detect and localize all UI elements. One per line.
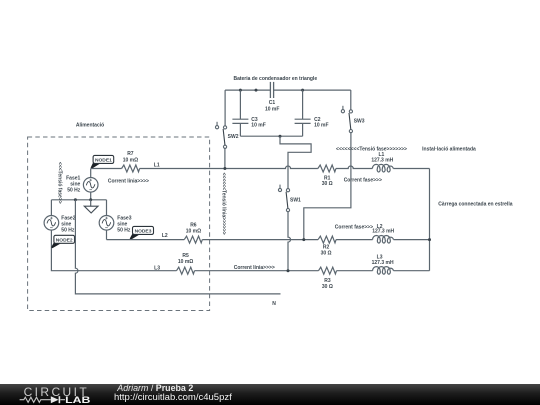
svg-text:Alimentació: Alimentació [76,123,104,129]
switch SW2 [215,122,238,149]
switch SW3 [341,106,364,133]
label R6 [186,223,201,235]
svg-text:L2: L2 [162,233,168,239]
wire Fase1 top to L1 [90,169,92,178]
svg-text:http://circuitlab.com/c4u5pzf: http://circuitlab.com/c4u5pzf [114,392,232,403]
wire cap bank bottom rail [240,135,302,137]
resistor R6 [184,236,202,243]
wire cap bank top rail [225,89,351,91]
svg-text:30 Ω: 30 Ω [321,250,332,256]
label L2 load [372,224,394,235]
label R5 [178,253,193,265]
wire SW1 to L3 line with hop over L2 [288,212,291,271]
svg-text:10 mΩ: 10 mΩ [123,157,138,163]
svg-text:R6: R6 [190,223,197,229]
label Carrega connectada en estrella [438,201,512,207]
inductor L2 load [373,236,394,244]
node flag NODE3 [130,226,154,239]
svg-text:C1: C1 [269,100,276,106]
logo CIRCUIT text [24,385,89,399]
ground symbol [84,200,98,213]
wire cap top rail to SW3 [350,90,352,110]
wire line L2 [107,239,430,241]
label R3 [322,278,333,290]
label Tensio fase arrows [336,146,407,152]
dashed box Alimentacio region [28,137,210,311]
label L2 line [162,233,168,239]
inductor L1 load [372,164,393,172]
capacitor C2 plates [295,119,311,123]
svg-text:10 mΩ: 10 mΩ [178,259,193,265]
svg-text:Instal·lació alimentada: Instal·lació alimentada [422,147,476,153]
logo resistor zigzag and diode [20,396,65,403]
label Corrent linia L3 [234,265,275,271]
resistor R7 [122,165,140,172]
resistor R1 [318,165,336,172]
svg-text:NODE2: NODE2 [56,237,73,243]
junction dot top rail C2 tap [301,89,304,92]
junction dot L2 SW3jog [302,238,305,241]
wire star bus right [429,169,431,271]
svg-text:R7: R7 [127,151,134,157]
svg-text:SW1: SW1 [290,197,301,203]
node flag NODE1 [91,155,114,168]
svg-text:50 Hz: 50 Hz [61,228,75,234]
label C1 [265,100,279,113]
wire jog from cap bottom node [280,136,311,188]
svg-text:127.3 mH: 127.3 mH [372,260,394,266]
label R7 [123,151,138,163]
wire neutral with hop over L3 [75,200,280,294]
resistor R2 [318,236,336,243]
capacitor C3 plates [232,119,248,123]
svg-text:10 mF: 10 mF [314,122,328,128]
label Corrent fase 1 [344,177,382,183]
resistor R5 [177,267,195,274]
label L3 load [372,255,394,266]
footer author line [116,383,193,393]
svg-text:R5: R5 [182,253,189,259]
svg-text:30 Ω: 30 Ω [322,181,333,187]
junction dot star bus L2 [428,238,431,241]
junction dot bus fase1 [89,198,92,201]
label L1 load [371,152,393,163]
label Fase1 [66,176,81,194]
label Corrent fase 2 [335,224,373,230]
svg-text:127.3 mH: 127.3 mH [372,229,394,235]
label Installacio alimentada [422,147,476,153]
svg-text:10 mΩ: 10 mΩ [186,229,201,235]
wire C3 branch [239,90,241,136]
wire cap left down to SW2 [224,90,226,126]
footer url line [114,392,232,403]
svg-text:N: N [272,301,276,307]
svg-text:50 Hz: 50 Hz [117,228,131,234]
label N [272,301,276,307]
voltage source Fase2 [44,216,59,231]
svg-text:<<<<<<<<Tensió fase>>>>>>>: <<<<<<<<Tensió fase>>>>>>> [336,146,407,152]
svg-text:SW3: SW3 [354,118,365,124]
node flag NODE2 [51,235,74,248]
junction dot bottom rail [279,135,282,138]
svg-text:L1: L1 [154,162,160,168]
wire Fase1 bottom to bus [90,192,92,200]
label C2 [314,117,328,128]
wire bus to Fase2 [50,200,52,216]
label Tensio fase vertical [57,162,63,204]
label R2 [321,244,332,256]
logo LAB text [65,394,90,405]
junction dot top rail left [239,89,242,92]
label C3 [251,117,265,128]
svg-text:Bateria de condensador en tria: Bateria de condensador en triangle [233,76,317,82]
wire bus to Fase3 [106,200,108,216]
label L3 line [154,266,160,272]
svg-text:50 Hz: 50 Hz [67,188,81,194]
label Alimentacio [76,123,104,129]
wire Fase3 to L2 corner [106,230,108,240]
label Fase3 [117,216,131,234]
label Bateria de condensador en triangle [233,76,317,82]
svg-text:30 Ω: 30 Ω [322,284,333,290]
wire SW3 down jog to L2 line [304,133,351,240]
switch SW1 [278,185,301,212]
voltage source Fase3 [99,216,114,231]
wire Fase2 to L3 corner [51,230,76,271]
svg-text:Càrrega connectada en estrella: Càrrega connectada en estrella [438,201,512,207]
svg-text:127.3 mH: 127.3 mH [371,157,393,163]
svg-text:Corrent fase>>>: Corrent fase>>> [344,177,382,183]
svg-text:<<<Tensió fase>>: <<<Tensió fase>> [57,162,63,204]
inductor L3 load [373,267,394,275]
svg-text:SW2: SW2 [228,134,239,140]
label L1 line [154,162,160,168]
voltage source Fase1 [83,178,98,193]
svg-text:10 mF: 10 mF [251,122,265,128]
svg-text:Corrent fase>>>: Corrent fase>>> [335,224,373,230]
junction dot bus neutral [74,198,77,201]
label Tensio linia vertical [221,173,227,235]
svg-text:Corrent línia>>>>: Corrent línia>>>> [234,265,275,271]
wire line L1 [91,166,430,169]
wire source bus [51,199,106,201]
resistor R3 [319,267,337,274]
svg-text:NODE3: NODE3 [135,229,152,235]
junction dot top rail mid [255,89,258,92]
junction dot L3 SW1 [287,269,290,272]
svg-text:NODE1: NODE1 [95,158,112,164]
svg-text:Corrent línia>>>>: Corrent línia>>>> [108,178,149,184]
footer bar [0,384,540,405]
capacitor C1 plates [270,82,273,98]
svg-text:LAB: LAB [65,394,90,405]
label Fase2 [61,216,75,234]
svg-text:L3: L3 [154,266,160,272]
junction dot L1 SW2 [223,167,226,170]
label R1 [322,176,333,187]
wire SW2 to line L1 [224,148,226,168]
wire C2 branch [302,90,304,136]
svg-text:10 mF: 10 mF [265,107,279,113]
wire line L3 [76,270,430,272]
label Corrent linia L1 [108,178,149,184]
svg-text:<<<<<<Tensió línia>>>>>>: <<<<<<Tensió línia>>>>>> [221,173,227,235]
